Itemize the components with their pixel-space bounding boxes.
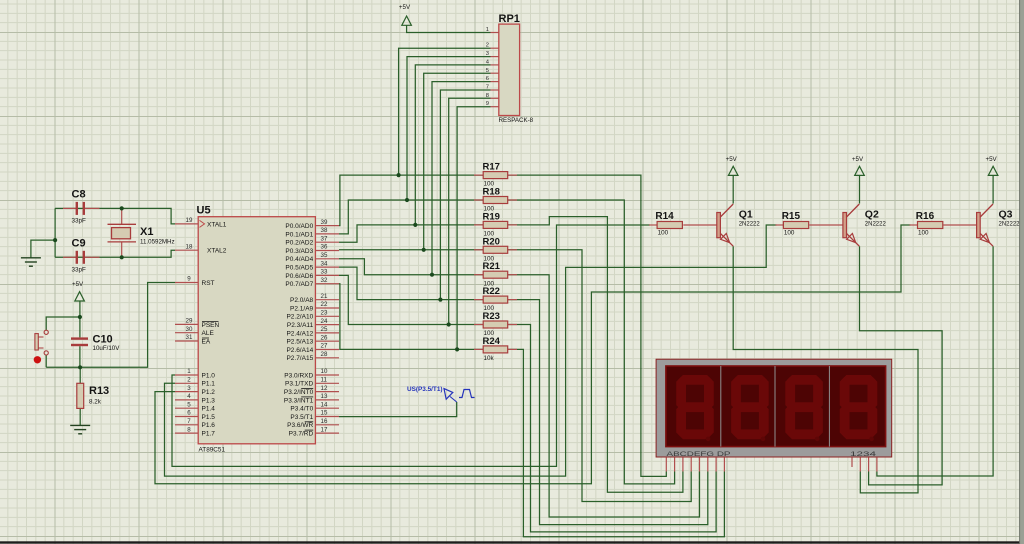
svg-text:P3.7/RD: P3.7/RD [289, 431, 314, 438]
wire net R17 to display segment A [508, 175, 667, 476]
svg-text:2: 2 [187, 377, 191, 384]
svg-text:R23: R23 [483, 311, 500, 322]
svg-text:10k: 10k [484, 355, 495, 362]
wire net RP1 pin4 to R19 row [415, 65, 490, 225]
svg-text:21: 21 [321, 293, 328, 300]
svg-text:P1.3: P1.3 [202, 397, 216, 404]
wire net R22 to display segment F [508, 300, 708, 525]
wire net P1.1 to R15 [165, 225, 777, 476]
wire net RP1 pin7 to R22 row [440, 90, 490, 300]
svg-text:11.0592MHz: 11.0592MHz [140, 238, 175, 245]
svg-text:RESPACK-8: RESPACK-8 [499, 117, 534, 124]
svg-text:P3.3/INT1: P3.3/INT1 [284, 397, 314, 404]
U5 right pin stubs [284, 219, 339, 438]
svg-text:1: 1 [486, 27, 489, 33]
svg-text:P2.5/A13: P2.5/A13 [286, 339, 313, 346]
svg-text:XTAL2: XTAL2 [207, 248, 227, 255]
wire wire junction to ground [31, 240, 55, 258]
wire net P0.7 to R24 [339, 284, 483, 350]
svg-text:P3.4/T0: P3.4/T0 [290, 406, 313, 413]
svg-text:7: 7 [187, 418, 191, 425]
wire net Q2 collector to +5V [859, 176, 861, 204]
display digit 2 unlit segments [731, 375, 769, 441]
wire wire C8 to C9 left join [54, 208, 56, 257]
svg-text:P1.2: P1.2 [202, 389, 216, 396]
svg-text:35: 35 [321, 252, 328, 259]
display pin labels [667, 451, 877, 458]
svg-text:P2.1/A9: P2.1/A9 [290, 305, 314, 312]
svg-text:+5V: +5V [726, 156, 738, 163]
svg-text:100: 100 [918, 230, 929, 237]
wire net P3.5/T1 to generator probe [339, 402, 457, 417]
svg-text:P0.3/AD3: P0.3/AD3 [285, 248, 313, 255]
wire net reset to RST pin [46, 283, 175, 368]
svg-text:3: 3 [187, 385, 191, 392]
svg-text:P2.3/A11: P2.3/A11 [287, 322, 314, 329]
svg-text:3: 3 [486, 51, 489, 57]
svg-text:R17: R17 [483, 162, 500, 173]
svg-text:6: 6 [187, 410, 191, 417]
svg-text:12: 12 [321, 385, 328, 392]
svg-text:R13: R13 [89, 385, 109, 397]
wire net C8 to XTAL1 [55, 208, 175, 224]
resistor pack RP1 RESPACK-8 [486, 13, 534, 124]
svg-text:6: 6 [486, 76, 489, 82]
svg-text:R15: R15 [782, 211, 801, 222]
svg-text:33pF: 33pF [72, 267, 87, 274]
transistor Q1 2N2222 [683, 204, 760, 246]
wire net Q3 emitter to digit pin 4 [877, 246, 993, 476]
wire net P0.3 to R20 [339, 249, 483, 251]
resistor R18 [474, 187, 517, 213]
wire net RP1 pin9 to R24 row [457, 107, 490, 350]
svg-text:Q3: Q3 [999, 209, 1013, 221]
svg-text:P2.4/A12: P2.4/A12 [286, 330, 313, 337]
wire net P0.5 to R22 [339, 267, 483, 300]
svg-text:34: 34 [321, 260, 328, 267]
svg-text:10uF/10V: 10uF/10V [93, 345, 121, 352]
svg-text:AT89C51: AT89C51 [199, 447, 226, 454]
wire net Q3 collector to +5V [992, 176, 994, 204]
svg-text:US(P3.5/T1): US(P3.5/T1) [407, 386, 443, 393]
wire net RP1 pin2 to R17 row [399, 48, 491, 175]
display digit 3 unlit segments [785, 375, 823, 441]
svg-text:32: 32 [321, 277, 328, 284]
svg-text:1: 1 [187, 368, 191, 375]
svg-text:9: 9 [486, 101, 489, 107]
svg-text:15: 15 [321, 410, 328, 417]
capacitor C9 33pF [63, 238, 100, 274]
svg-text:U5: U5 [197, 205, 211, 217]
power +5V above Q2 [852, 156, 864, 176]
wire net R24 to display segment DP [508, 349, 725, 536]
wire net R20 to display segment D [508, 250, 692, 502]
wire net R23 to display segment G [508, 325, 716, 532]
svg-text:Q2: Q2 [865, 209, 879, 221]
svg-text:10: 10 [321, 368, 328, 375]
svg-text:P0.4/AD4: P0.4/AD4 [285, 256, 313, 263]
svg-text:P3.2/INT0: P3.2/INT0 [284, 389, 314, 396]
capacitor C8 33pF [63, 189, 100, 225]
svg-text:30: 30 [186, 326, 193, 333]
svg-text:100: 100 [658, 230, 669, 237]
svg-text:8: 8 [486, 93, 489, 99]
svg-text:17: 17 [321, 426, 328, 433]
svg-text:R22: R22 [483, 286, 500, 297]
svg-text:P2.7/A15: P2.7/A15 [286, 355, 313, 362]
resistor R17 [474, 162, 517, 188]
svg-text:+5V: +5V [72, 281, 84, 288]
svg-text:8: 8 [187, 426, 191, 433]
svg-text:33: 33 [321, 269, 328, 276]
wire net +5V to RP1 pin1 [407, 25, 491, 32]
resistor R16 [910, 211, 943, 236]
svg-text:PSEN: PSEN [202, 322, 220, 329]
svg-text:24: 24 [321, 318, 328, 325]
svg-text:Q1: Q1 [739, 209, 753, 221]
svg-text:RST: RST [202, 280, 215, 287]
svg-text:X1: X1 [140, 226, 153, 238]
wire net Q2 emitter to digit pin 3 [860, 246, 943, 485]
svg-text:18: 18 [186, 243, 193, 250]
svg-text:P1.4: P1.4 [202, 406, 216, 413]
wire net C9 to XTAL2 [55, 250, 175, 257]
svg-text:4: 4 [187, 393, 191, 400]
svg-text:XTAL1: XTAL1 [207, 221, 227, 228]
wire net RP1 pin8 to R23 row [449, 98, 491, 324]
wire wire reset node to button top [46, 317, 80, 330]
svg-text:2: 2 [486, 43, 489, 49]
svg-text:38: 38 [321, 227, 328, 234]
svg-text:R16: R16 [916, 211, 935, 222]
resistor R22 [474, 286, 517, 312]
svg-text:C9: C9 [72, 238, 86, 250]
svg-text:5: 5 [486, 68, 489, 74]
ground crystal circuit [21, 258, 41, 266]
display digit 4 unlit segments [840, 375, 878, 441]
wire net RP1 pin6 to R21 row [432, 82, 491, 275]
svg-text:8.2k: 8.2k [89, 399, 102, 406]
power +5V reset circuit [72, 281, 84, 301]
svg-text:C8: C8 [72, 189, 86, 201]
svg-text:P3.0/RXD: P3.0/RXD [284, 372, 313, 379]
svg-text:+5V: +5V [399, 4, 411, 11]
svg-text:P0.1/AD1: P0.1/AD1 [285, 231, 313, 238]
svg-text:P1.6: P1.6 [202, 422, 216, 429]
svg-text:27: 27 [321, 343, 328, 350]
svg-text:31: 31 [186, 334, 193, 341]
svg-text:5: 5 [187, 401, 191, 408]
crystal X1 11.0592MHz [108, 208, 175, 257]
wire net Q1 collector to +5V [732, 176, 734, 204]
svg-text:37: 37 [321, 235, 328, 242]
wire net P0.0 to R17 [339, 175, 483, 226]
display digit 1 unlit segments [676, 375, 714, 441]
svg-text:9: 9 [187, 276, 191, 283]
svg-text:P1.0: P1.0 [202, 372, 216, 379]
wire wire button bottom [45, 355, 47, 367]
svg-text:36: 36 [321, 244, 328, 251]
svg-text:1234: 1234 [850, 451, 877, 458]
resistor R23 [474, 311, 517, 337]
U5 left pin stubs [175, 217, 227, 437]
svg-text:+5V: +5V [852, 156, 864, 163]
resistor R21 [474, 261, 517, 287]
svg-text:P0.7/AD7: P0.7/AD7 [285, 281, 313, 288]
wire net R18 to display segment B [508, 200, 675, 484]
wire net P1.0 to R14 [172, 225, 650, 466]
transistor Q2 2N2222 [809, 204, 886, 246]
wire net R19 to display segment C [508, 217, 683, 493]
wire net P0.2 to R19 [339, 225, 483, 242]
svg-text:RP1: RP1 [499, 13, 520, 25]
resistor R13 8.2k [77, 383, 109, 408]
svg-text:19: 19 [186, 217, 193, 224]
wire net Q1 emitter to digit pin 2 [733, 246, 918, 493]
generator probe US(P3.5/T1) [407, 386, 475, 402]
svg-text:R19: R19 [483, 211, 500, 222]
svg-text:22: 22 [321, 301, 328, 308]
svg-text:P0.2/AD2: P0.2/AD2 [285, 240, 313, 247]
power +5V above RP1 [399, 4, 411, 25]
display pin stubs [666, 457, 877, 471]
wire net RP1 pin3 to R18 row [407, 57, 491, 200]
ground reset circuit [70, 425, 90, 433]
svg-text:33pF: 33pF [72, 218, 87, 225]
wire wire node to R13 top [79, 367, 81, 383]
svg-text:P3.6/WR: P3.6/WR [287, 422, 313, 429]
wire wire C10 bottom to node [79, 346, 81, 367]
svg-text:P0.5/AD5: P0.5/AD5 [285, 265, 313, 272]
svg-text:ABCDEFG DP: ABCDEFG DP [667, 451, 731, 458]
wire net P0.1 to R18 [339, 200, 483, 234]
junction dots [53, 173, 459, 369]
svg-text:2N2222: 2N2222 [999, 222, 1021, 228]
svg-text:P3.1/TXD: P3.1/TXD [285, 381, 313, 388]
svg-text:R20: R20 [483, 236, 500, 247]
svg-text:26: 26 [321, 334, 328, 341]
wire net P0.6 to R23 [339, 275, 483, 324]
wire wire +5V to reset node [79, 301, 81, 317]
svg-text:C10: C10 [93, 333, 113, 345]
power +5V above Q1 [726, 156, 738, 176]
svg-text:P2.2/A10: P2.2/A10 [286, 314, 313, 321]
svg-text:P2.6/A14: P2.6/A14 [286, 347, 313, 354]
svg-text:P1.1: P1.1 [202, 381, 216, 388]
resistor R14 [649, 211, 682, 236]
svg-text:P2.0/A8: P2.0/A8 [290, 297, 314, 304]
7-segment display 4-digit module [656, 359, 892, 457]
resistor R24 [474, 336, 517, 362]
svg-text:P0.6/AD6: P0.6/AD6 [285, 273, 313, 280]
svg-text:100: 100 [784, 230, 795, 237]
transistor Q3 2N2222 [943, 204, 1020, 246]
resistor R15 [775, 211, 808, 236]
wire net P0.4 to R21 [339, 259, 483, 275]
capacitor C10 10uF/10V [71, 333, 120, 352]
op-amp U5 AT89C51 body [197, 205, 316, 454]
wire net RP1 pin5 to R20 row [424, 73, 491, 250]
svg-text:23: 23 [321, 310, 328, 317]
svg-text:11: 11 [321, 377, 328, 384]
svg-text:+5V: +5V [986, 156, 998, 163]
resistor R19 [474, 211, 517, 237]
push button reset switch [34, 330, 49, 363]
svg-text:ALE: ALE [202, 330, 215, 337]
right window border [1020, 0, 1024, 544]
svg-text:7: 7 [486, 85, 489, 91]
svg-text:13: 13 [321, 393, 328, 400]
svg-text:25: 25 [321, 326, 328, 333]
svg-text:P1.7: P1.7 [202, 431, 216, 438]
svg-text:R21: R21 [483, 261, 501, 272]
wire wire R13 bottom to ground [79, 408, 81, 425]
svg-text:EA: EA [202, 338, 211, 345]
svg-text:R14: R14 [655, 211, 674, 222]
svg-text:39: 39 [321, 219, 328, 226]
wire net R21 to display segment E [508, 275, 700, 517]
svg-text:2N2222: 2N2222 [739, 222, 761, 228]
wire net P1.2 to R16 [155, 225, 911, 484]
svg-text:16: 16 [321, 418, 328, 425]
svg-text:P0.0/AD0: P0.0/AD0 [285, 223, 313, 230]
svg-text:28: 28 [321, 351, 328, 358]
svg-text:P3.5/T1: P3.5/T1 [290, 414, 313, 421]
svg-text:R24: R24 [483, 336, 501, 347]
resistor R20 [474, 236, 517, 262]
svg-text:29: 29 [186, 318, 193, 325]
wire wire node to C10 top [79, 317, 81, 337]
power +5V above Q3 [986, 156, 998, 176]
svg-text:P1.5: P1.5 [202, 414, 216, 421]
svg-text:14: 14 [321, 401, 328, 408]
svg-text:2N2222: 2N2222 [865, 222, 887, 228]
svg-text:R18: R18 [483, 187, 500, 198]
bottom window border [0, 541, 1024, 543]
